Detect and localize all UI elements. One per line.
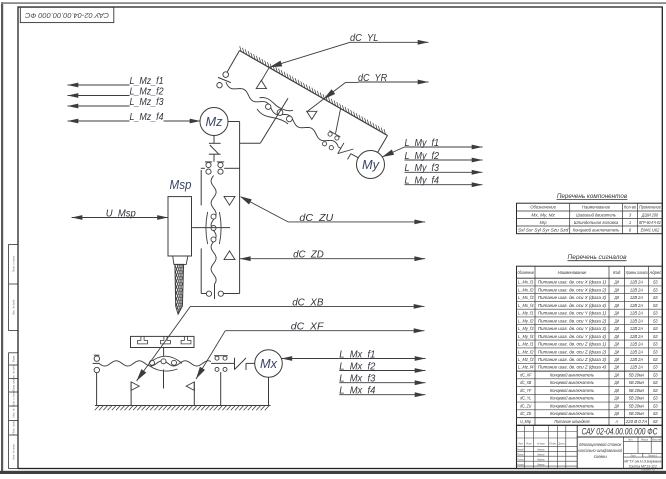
svg-text:Обозначение: Обозначение (518, 270, 535, 275)
svg-text:Уровень сигнала: Уровень сигнала (626, 270, 648, 275)
svg-text:БЗ: БЗ (653, 403, 658, 408)
svg-text:L_My_f1: L_My_f1 (405, 138, 440, 149)
svg-text:Иванов: Иванов (537, 457, 544, 461)
svg-text:Формат А3: Формат А3 (641, 468, 656, 472)
svg-text:Иванов: Иванов (537, 452, 544, 456)
svg-text:БЗ: БЗ (653, 318, 658, 323)
svg-text:ДИ: ДИ (614, 318, 620, 323)
svg-text:Инв. №: Инв. № (12, 408, 16, 417)
svg-text:А: А (615, 419, 618, 424)
svg-text:Питание шаг. дв. оси X (фаза 1: Питание шаг. дв. оси X (фаза 1) (538, 280, 607, 285)
svg-text:L_Mz_f1: L_Mz_f1 (130, 76, 164, 87)
svg-text:12В 2А: 12В 2А (630, 357, 643, 362)
svg-text:12В 2А: 12В 2А (630, 342, 643, 347)
svg-text:ДИ: ДИ (614, 334, 620, 339)
svg-text:схемы: схемы (594, 454, 607, 459)
svg-text:Mx, My, Mz: Mx, My, Mz (531, 212, 555, 217)
svg-text:Инв. № дубл.: Инв. № дубл. (12, 364, 16, 380)
svg-text:Подп. и дата: Подп. и дата (12, 255, 16, 272)
svg-text:Адрес: Адрес (649, 270, 662, 275)
svg-text:L_Mx_f2: L_Mx_f2 (339, 361, 375, 372)
svg-text:ДИ: ДИ (614, 349, 620, 354)
svg-text:Наименование: Наименование (582, 205, 611, 210)
svg-text:L_My_f3: L_My_f3 (405, 163, 440, 174)
svg-text:Лит.: Лит. (627, 437, 633, 441)
svg-text:12В 2А: 12В 2А (630, 349, 643, 354)
svg-text:Концевой выключатель: Концевой выключатель (550, 403, 595, 408)
svg-text:Многоцелевой станок: Многоцелевой станок (579, 442, 622, 447)
svg-text:Масштаб: Масштаб (652, 437, 661, 441)
svg-text:L_Mz_f3: L_Mz_f3 (518, 357, 534, 362)
svg-text:12В 2А: 12В 2А (630, 280, 643, 285)
svg-text:Листов 1: Листов 1 (647, 453, 657, 457)
svg-text:12В 2А: 12В 2А (630, 303, 643, 308)
svg-text:Концевой выключатель: Концевой выключатель (550, 372, 595, 377)
svg-text:ДИ: ДИ (614, 342, 620, 347)
svg-text:Sxl Sxr Syl Syr Szu Szd: Sxl Sxr Syl Syr Szu Szd (518, 227, 569, 232)
svg-text:L_Mz_f2: L_Mz_f2 (130, 86, 164, 97)
svg-text:Наименование: Наименование (558, 270, 587, 275)
svg-text:L_Mx_f4: L_Mx_f4 (339, 386, 375, 397)
svg-text:БЗ: БЗ (653, 287, 658, 292)
svg-text:Подп.: Подп. (549, 442, 557, 446)
svg-text:L_Mx_f2: L_Mx_f2 (518, 287, 534, 292)
svg-text:Н.контр.: Н.контр. (517, 462, 524, 466)
svg-text:Концевой выключатель: Концевой выключатель (550, 411, 595, 416)
svg-text:Питание шпинделя: Питание шпинделя (554, 419, 590, 424)
svg-text:ДИ: ДИ (614, 396, 620, 401)
svg-text:12В 2А: 12В 2А (630, 295, 643, 300)
svg-text:L_My_f2: L_My_f2 (518, 318, 534, 323)
svg-text:БЗ: БЗ (653, 419, 658, 424)
svg-text:L_Mx_f3: L_Mx_f3 (339, 374, 375, 385)
svg-text:dC_ZU: dC_ZU (520, 403, 532, 408)
svg-text:L_Mx_f3: L_Mx_f3 (518, 295, 534, 300)
svg-text:БЗ: БЗ (653, 396, 658, 401)
svg-text:БЗ: БЗ (653, 326, 658, 331)
svg-text:БЗ: БЗ (653, 280, 658, 285)
svg-text:Питание шаг. дв. оси X (фаза 4: Питание шаг. дв. оси X (фаза 4) (538, 303, 607, 308)
svg-text:L_Mz_f1: L_Mz_f1 (518, 342, 534, 347)
svg-text:Mx: Mx (260, 356, 277, 371)
svg-text:12В 2А: 12В 2А (630, 334, 643, 339)
svg-text:ДШИ 200: ДШИ 200 (641, 212, 659, 217)
svg-text:ДИ: ДИ (614, 388, 620, 393)
svg-text:dC_ZD: dC_ZD (520, 411, 532, 416)
svg-text:ДИ: ДИ (614, 365, 620, 370)
svg-text:L_Mx_f4: L_Mx_f4 (518, 303, 534, 308)
svg-text:U_Msp: U_Msp (106, 208, 136, 219)
svg-text:12В 2А: 12В 2А (630, 287, 643, 292)
svg-text:Питание шаг. дв. оси Y (фаза 3: Питание шаг. дв. оси Y (фаза 3) (538, 326, 607, 331)
svg-text:Лист: Лист (630, 453, 636, 457)
svg-text:Изм: Изм (518, 442, 523, 446)
svg-text:Шпиндельная головка: Шпиндельная головка (574, 220, 619, 225)
svg-text:Разраб.: Разраб. (517, 448, 524, 452)
svg-text:Mz: Mz (206, 114, 223, 129)
svg-text:5В 20мА: 5В 20мА (629, 396, 644, 401)
svg-text:Иванов: Иванов (537, 448, 544, 452)
svg-text:L_Mz_f4: L_Mz_f4 (518, 365, 534, 370)
svg-text:ДИ: ДИ (614, 403, 620, 408)
svg-text:220 В 0.7А: 220 В 0.7А (625, 419, 648, 424)
svg-text:Питание шаг. дв. оси Y (фаза 1: Питание шаг. дв. оси Y (фаза 1) (538, 311, 607, 316)
svg-text:БЗ: БЗ (653, 380, 658, 385)
svg-text:ДИ: ДИ (614, 326, 620, 331)
svg-text:Перечень сигналов: Перечень сигналов (568, 254, 628, 261)
svg-text:БЗ: БЗ (653, 311, 658, 316)
svg-text:Шаговый двигатель: Шаговый двигатель (576, 211, 616, 217)
svg-text:Концевой выключатель: Концевой выключатель (550, 380, 595, 385)
svg-text:U_Msp: U_Msp (520, 419, 531, 424)
svg-text:Перечень компонентов: Перечень компонентов (557, 193, 628, 200)
svg-text:ДИ: ДИ (614, 380, 620, 385)
svg-text:БЗ: БЗ (653, 365, 658, 370)
svg-text:dC_XB: dC_XB (520, 380, 531, 385)
svg-text:Концевой выключатель: Концевой выключатель (550, 396, 595, 401)
svg-text:Примечание: Примечание (639, 205, 661, 210)
svg-text:САУ 02-04.00.00.000 ФС: САУ 02-04.00.00.000 ФС (24, 11, 109, 18)
svg-text:ДИ: ДИ (614, 287, 620, 292)
svg-text:Подп. и дата: Подп. и дата (12, 390, 16, 407)
svg-text:L_Mx_f1: L_Mx_f1 (518, 280, 534, 285)
svg-text:Т.контр.: Т.контр. (517, 457, 524, 461)
svg-text:L_My_f1: L_My_f1 (518, 311, 534, 316)
svg-text:ВГР-60-КЧ-02: ВГР-60-КЧ-02 (639, 220, 661, 225)
svg-text:БЗ: БЗ (653, 388, 658, 393)
svg-text:Инв. № дубл.: Инв. № дубл. (12, 299, 16, 315)
svg-text:Иванов: Иванов (537, 462, 544, 466)
svg-text:5В 20мА: 5В 20мА (629, 380, 644, 385)
svg-text:Пров.: Пров. (517, 452, 524, 456)
svg-text:Питание шаг. дв. оси Y (фаза 4: Питание шаг. дв. оси Y (фаза 4) (538, 334, 607, 339)
svg-text:БЗ: БЗ (653, 303, 658, 308)
svg-text:5В 20мА: 5В 20мА (629, 411, 644, 416)
svg-text:5В 20мА: 5В 20мА (629, 388, 644, 393)
svg-text:БЗ: БЗ (653, 342, 658, 347)
svg-text:Дата: Дата (558, 442, 565, 446)
svg-text:Питание шаг. дв. оси Z (фаза 2: Питание шаг. дв. оси Z (фаза 2) (538, 349, 607, 354)
svg-text:БЗ: БЗ (653, 411, 658, 416)
svg-text:Питание шаг. дв. оси X (фаза 3: Питание шаг. дв. оси X (фаза 3) (538, 295, 607, 300)
svg-text:12В 2А: 12В 2А (630, 365, 643, 370)
svg-text:Кол-во: Кол-во (624, 205, 637, 210)
svg-text:L_Mz_f4: L_Mz_f4 (130, 112, 164, 123)
svg-text:dC_YL: dC_YL (520, 396, 531, 401)
svg-text:Питание шаг. дв. оси X (фаза 2: Питание шаг. дв. оси X (фаза 2) (538, 287, 607, 292)
svg-text:БЗ: БЗ (653, 295, 658, 300)
svg-text:Msp: Msp (170, 177, 192, 192)
svg-text:консольно-шлифовальной: консольно-шлифовальной (578, 448, 623, 453)
svg-text:Концевой выключатель: Концевой выключатель (573, 226, 620, 232)
svg-text:ДИ: ДИ (614, 295, 620, 300)
svg-text:БЗ: БЗ (653, 357, 658, 362)
svg-text:САУ 02-04.00.00.000 ФС: САУ 02-04.00.00.000 ФС (582, 426, 658, 436)
svg-text:Лист: Лист (525, 442, 532, 446)
svg-text:ДИ: ДИ (614, 357, 620, 362)
svg-text:Подп. дата: Подп. дата (12, 420, 16, 435)
svg-text:dC_XF: dC_XF (520, 372, 531, 377)
svg-text:My: My (362, 157, 380, 172)
svg-text:Инв. № подл.: Инв. № подл. (12, 443, 16, 459)
svg-text:ДИ: ДИ (614, 372, 620, 377)
svg-text:БЗ: БЗ (653, 372, 658, 377)
svg-text:№ докум.: № докум. (537, 442, 545, 446)
svg-text:ДИ: ДИ (614, 311, 620, 316)
svg-text:Питание шаг. дв. оси Y (фаза 2: Питание шаг. дв. оси Y (фаза 2) (538, 318, 607, 323)
svg-text:БЗ: БЗ (653, 349, 658, 354)
svg-text:5В 20мА: 5В 20мА (629, 403, 644, 408)
svg-text:L_Mz_f2: L_Mz_f2 (518, 349, 534, 354)
svg-text:L_My_f2: L_My_f2 (405, 151, 440, 162)
svg-text:Обозначение: Обозначение (530, 205, 556, 210)
svg-text:L_My_f4: L_My_f4 (518, 334, 534, 339)
svg-text:ДИ: ДИ (614, 280, 620, 285)
svg-text:5В 20мА: 5В 20мА (629, 372, 644, 377)
svg-text:12В 2А: 12В 2А (630, 326, 643, 331)
svg-text:Взам.: Взам. (12, 355, 16, 362)
svg-text:L_Mx_f1: L_Mx_f1 (339, 349, 375, 360)
svg-text:Концевой выключатель: Концевой выключатель (550, 388, 595, 393)
svg-text:12В 2А: 12В 2А (630, 311, 643, 316)
svg-text:L_My_f3: L_My_f3 (518, 326, 534, 331)
svg-text:Взам. инв.: Взам. инв. (12, 378, 16, 391)
svg-text:Питание шаг. дв. оси Z (фаза 1: Питание шаг. дв. оси Z (фаза 1) (538, 342, 607, 347)
svg-text:L_My_f4: L_My_f4 (405, 176, 440, 187)
svg-text:Масса: Масса (641, 437, 648, 441)
svg-text:ДИ: ДИ (614, 411, 620, 416)
svg-text:ДИ: ДИ (614, 303, 620, 308)
svg-text:Код: Код (613, 270, 621, 275)
svg-text:Питание шаг. дв. оси Z (фаза 4: Питание шаг. дв. оси Z (фаза 4) (538, 365, 607, 370)
svg-text:ЕМ41 U62: ЕМ41 U62 (641, 227, 660, 232)
svg-text:Группа МТ13-112: Группа МТ13-112 (629, 463, 658, 468)
svg-text:L_Mz_f3: L_Mz_f3 (130, 97, 164, 108)
svg-text:Msp: Msp (540, 220, 547, 225)
svg-text:12В 2А: 12В 2А (630, 318, 643, 323)
svg-text:Питание шаг. дв. оси Z (фаза 3: Питание шаг. дв. оси Z (фаза 3) (538, 357, 607, 362)
svg-text:БЗ: БЗ (653, 334, 658, 339)
svg-text:dC_YF: dC_YF (520, 388, 531, 393)
